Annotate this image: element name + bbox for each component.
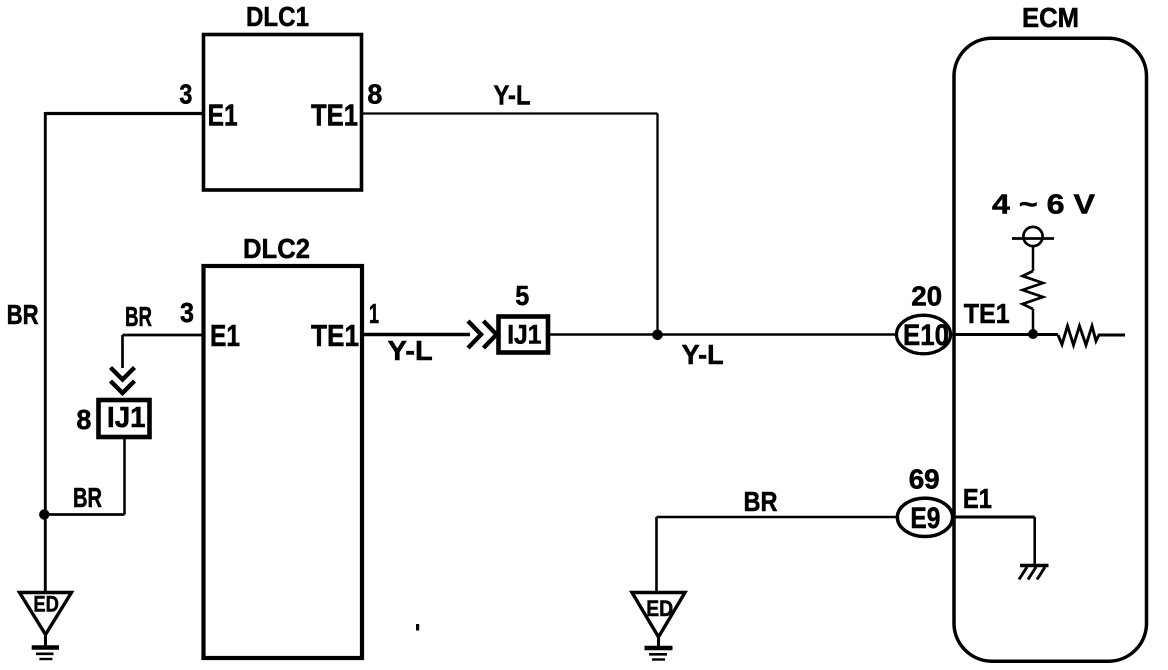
svg-text:E10: E10 <box>903 319 949 352</box>
svg-text:BR: BR <box>73 482 102 513</box>
svg-text:ED: ED <box>646 596 673 621</box>
svg-text:4 ~ 6 V: 4 ~ 6 V <box>992 189 1095 220</box>
svg-text:1: 1 <box>369 298 379 329</box>
svg-text:DLC1: DLC1 <box>246 1 309 32</box>
svg-text:E9: E9 <box>910 502 940 535</box>
svg-text:20: 20 <box>911 280 942 311</box>
svg-text:8: 8 <box>76 404 91 435</box>
svg-text:E1: E1 <box>208 97 238 132</box>
svg-text:E1: E1 <box>963 483 992 514</box>
svg-text:5: 5 <box>515 280 529 311</box>
svg-text:E1: E1 <box>210 318 240 353</box>
svg-text:Y-L: Y-L <box>682 339 724 370</box>
svg-text:Y-L: Y-L <box>388 335 433 366</box>
svg-text:Y-L: Y-L <box>494 80 531 111</box>
svg-text:3: 3 <box>179 78 192 109</box>
svg-text:TE1: TE1 <box>311 97 358 132</box>
svg-text:IJ1: IJ1 <box>107 402 146 434</box>
svg-text:BR: BR <box>7 299 39 330</box>
svg-text:TE1: TE1 <box>964 298 1010 329</box>
svg-text:8: 8 <box>367 78 382 109</box>
svg-text:ED: ED <box>33 592 59 617</box>
svg-text:ECM: ECM <box>1022 2 1079 33</box>
svg-text:3: 3 <box>180 297 194 328</box>
svg-text:BR: BR <box>125 301 152 332</box>
svg-text:BR: BR <box>744 486 778 517</box>
svg-text:69: 69 <box>909 464 940 495</box>
svg-text:IJ1: IJ1 <box>507 320 541 350</box>
svg-text:TE1: TE1 <box>311 318 359 353</box>
svg-text:DLC2: DLC2 <box>243 233 310 264</box>
